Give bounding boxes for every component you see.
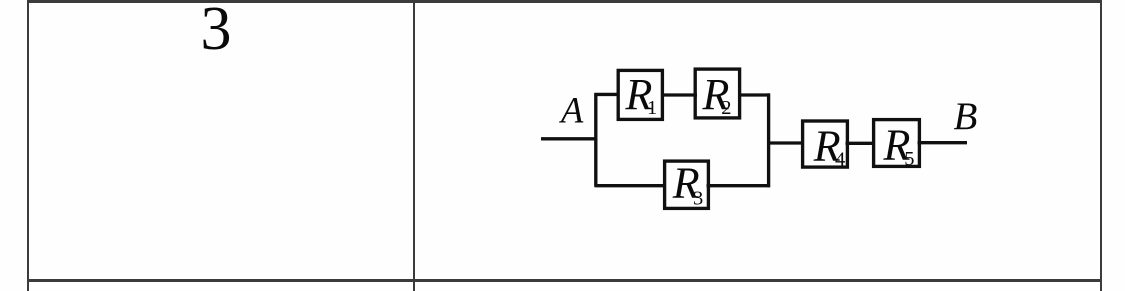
- svg-text:4: 4: [835, 148, 845, 170]
- wire: R3 to right junction: [707, 184, 771, 187]
- resistor R4: [803, 121, 848, 171]
- resistor R2: [695, 69, 739, 119]
- resistor R5: [874, 120, 920, 170]
- resistor R3: [665, 158, 709, 209]
- wire: left vertical to R3: [595, 184, 667, 187]
- svg-text:1: 1: [647, 97, 657, 119]
- wire: output to B: [918, 141, 968, 144]
- wire: R1 to R2: [661, 93, 697, 96]
- wire: R4 to R5: [846, 142, 876, 145]
- svg-text:A: A: [559, 90, 584, 131]
- wire: left vertical to R1: [595, 93, 620, 96]
- svg-text:5: 5: [904, 148, 914, 170]
- svg-text:3: 3: [693, 187, 703, 209]
- wire: R2 to right junction: [738, 93, 770, 96]
- svg-text:B: B: [954, 95, 978, 138]
- wire: left junction vertical: [594, 93, 597, 187]
- wire: junction to R4: [767, 141, 804, 144]
- table frame: [27, 0, 29, 291]
- svg-text:2: 2: [721, 97, 731, 119]
- resistor R1: [618, 70, 662, 119]
- wire: right junction vertical: [767, 93, 770, 187]
- wire: input from A: [541, 137, 597, 140]
